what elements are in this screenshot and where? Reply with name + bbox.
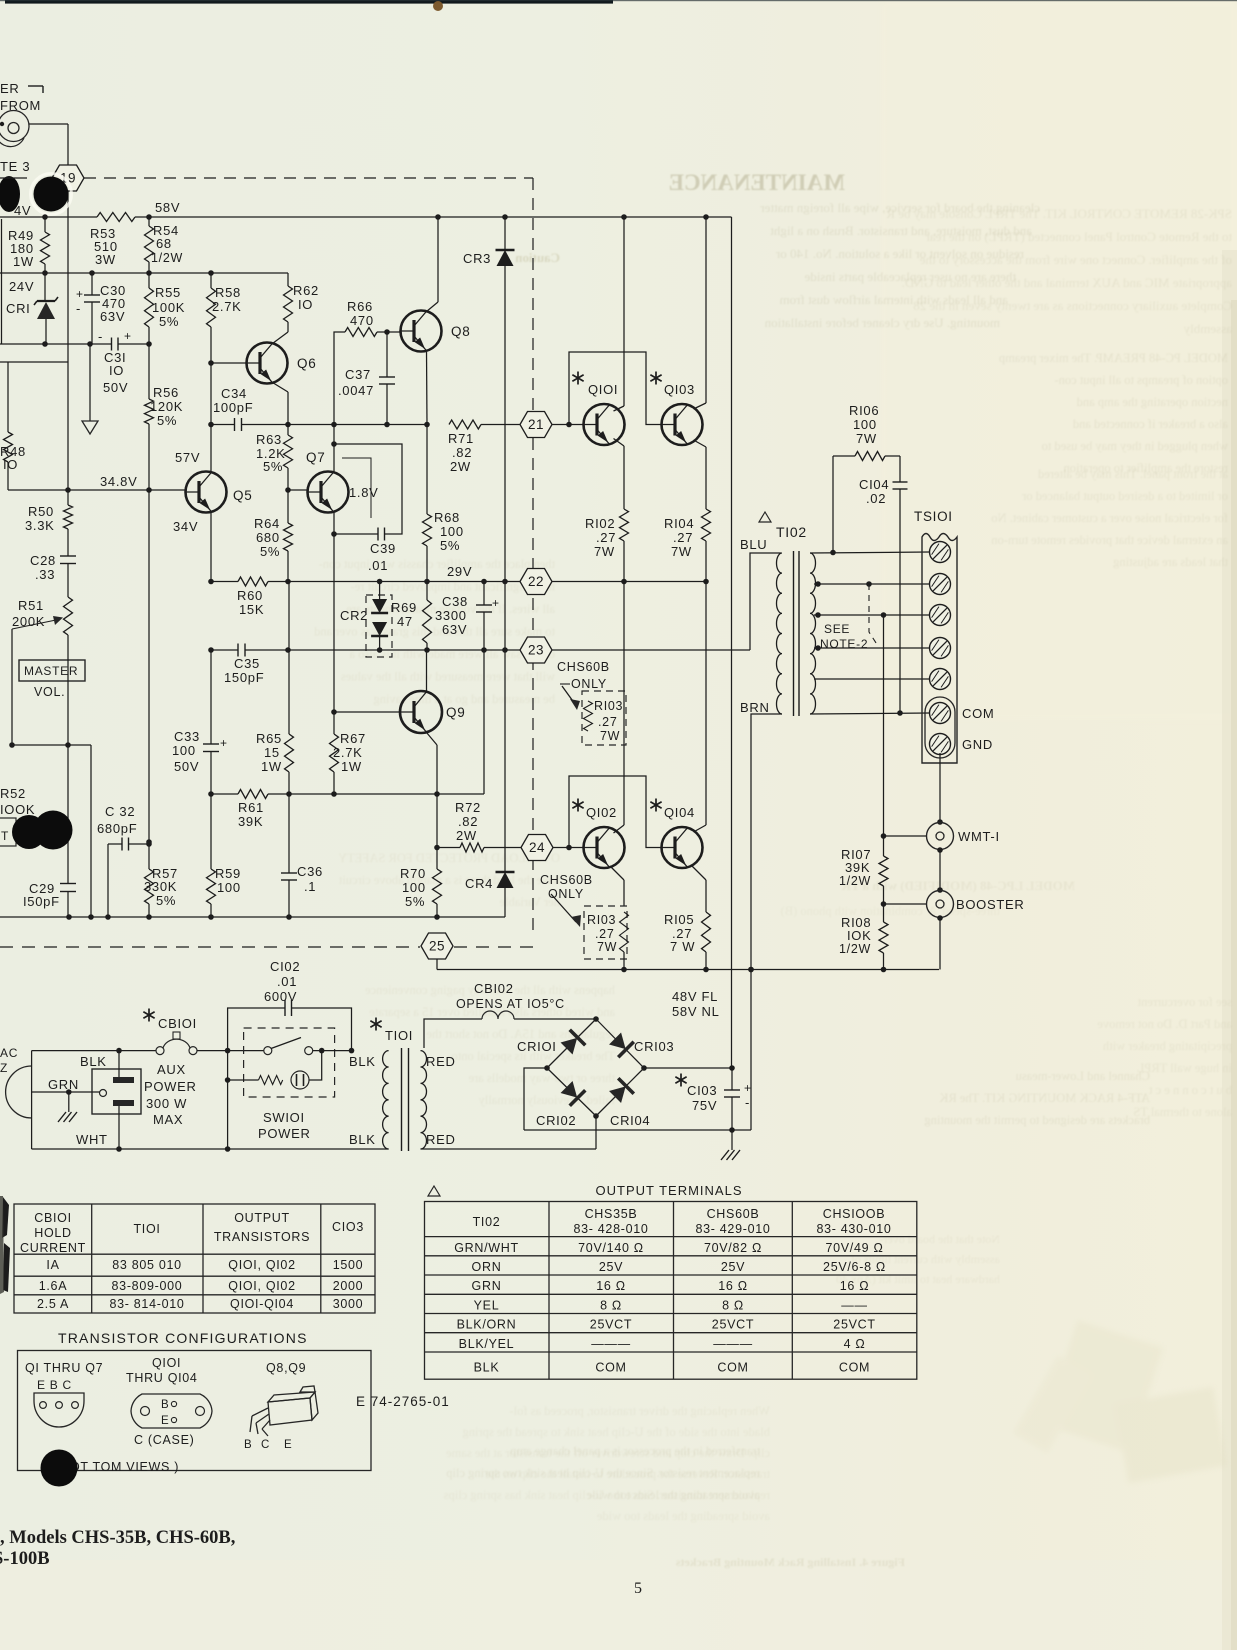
resistor R57 [145,869,154,904]
input jack from mixer [0,111,29,142]
svg-text:IA: IA [46,1258,59,1272]
switch SW101 [264,1047,272,1055]
bridge bottom corner to T101 [595,1116,597,1149]
svg-text:B: B [244,1439,252,1451]
svg-text:3300: 3300 [435,608,467,623]
svg-text:75V: 75V [692,1098,717,1113]
svg-text:Note that the board over-: Note that the board over- [880,1232,1000,1246]
svg-text:QI04: QI04 [664,805,695,820]
Q102 collector column from y=581 [623,582,625,826]
svg-text:R67: R67 [340,731,366,746]
svg-text:C 32: C 32 [105,804,135,819]
Q103 collector column from bus [705,217,707,403]
svg-text:CHS60B: CHS60B [540,873,593,887]
svg-text:39K: 39K [238,814,263,829]
transistor Q104 [662,827,703,868]
svg-text:CR3: CR3 [463,251,491,266]
Q6 emitter wire [273,383,289,393]
svg-text:7W: 7W [671,544,692,559]
resistor R70 [436,848,438,870]
svg-text:22: 22 [528,574,544,589]
svg-text:1W: 1W [13,254,34,269]
svg-text:Caution: Caution [514,250,560,265]
svg-text:100: 100 [217,880,241,895]
svg-text:CR2: CR2 [340,608,368,623]
svg-text:that leads are adjusting: that leads are adjusting [1112,555,1228,569]
Q7 emitter column [333,512,335,712]
svg-text:2.7K: 2.7K [212,299,242,314]
svg-text:QIOI, QI02: QIOI, QI02 [228,1279,295,1293]
table CB101 hold current [14,1204,375,1313]
svg-text:RI04: RI04 [664,516,694,531]
stadium around COM GND [925,697,955,758]
Q8 collector to 58V bus [437,217,439,302]
resistor R107 [879,856,888,886]
svg-text:.27: .27 [598,715,617,729]
TO-3 package bottom view [131,1394,212,1428]
svg-text:58V: 58V [155,200,180,215]
wire y=794 [211,793,238,795]
capacitor C36 [288,794,290,873]
svg-text:R62: R62 [293,283,319,298]
svg-text:RI02: RI02 [585,516,615,531]
svg-text:C39: C39 [370,541,396,556]
transformer T102 labels [759,512,771,522]
svg-text:Q8: Q8 [451,324,470,339]
ground at GRN [68,1092,70,1112]
resistor R54 [148,217,150,226]
transistor Q103 [662,404,703,445]
svg-text:of the amplifier. Connect one: of the amplifier. Connect one wire from … [920,252,1232,267]
svg-text:CR4: CR4 [465,876,493,891]
svg-text:R50: R50 [28,504,54,519]
svg-text:Q8,Q9: Q8,Q9 [266,1361,306,1375]
svg-text:1/2W: 1/2W [151,251,183,265]
GND wire down to WMT1 [939,753,941,822]
wire hex24 drive line y=847.5 [437,847,460,849]
svg-text:680pF: 680pF [97,821,137,836]
svg-text:50V: 50V [174,759,199,774]
resistor R64 [287,490,289,523]
svg-text:C33: C33 [174,729,200,744]
svg-text:C: C [261,1439,270,1451]
svg-text:25VCT: 25VCT [712,1318,754,1332]
svg-text:.82: .82 [458,814,478,829]
wire booster to divider [884,903,927,905]
svg-text:for electrical noise over a cu: for electrical noise over a customer cab… [991,511,1228,525]
svg-text:R69: R69 [391,600,417,615]
capacitor C104 [899,456,901,482]
svg-text:TI02: TI02 [776,524,807,540]
node 19 hexagon [52,165,84,191]
capacitor C30 [91,273,93,295]
transistor Q8 [401,311,442,352]
svg-text:83 805 010: 83 805 010 [112,1258,182,1272]
TS101 screw terminals [930,542,951,563]
ground rail y=917 [0,916,505,918]
wire y=650 (hex23 line) [211,649,238,651]
svg-text:, Models CHS-35B, CHS-60B,: , Models CHS-35B, CHS-60B, [0,1528,235,1548]
svg-text:ORN: ORN [472,1260,502,1274]
svg-text:+: + [76,287,84,301]
resistor R62 [287,273,289,286]
svg-text:CRI02: CRI02 [536,1113,576,1128]
svg-text:replacement transistor. Since: replacement transistor. Since the U-clip… [444,1488,770,1502]
neon lamp branch [228,1079,259,1081]
left page-edge wire [1,219,3,344]
wire hex19 down to Q5 base line [67,191,69,490]
svg-text:TIOI: TIOI [133,1222,160,1236]
svg-text:100: 100 [402,880,426,895]
node 22 hexagon [520,569,552,595]
svg-text:IOOK: IOOK [0,802,35,817]
resistor R53 [97,213,135,222]
svg-text:7W: 7W [856,431,877,446]
svg-text:blade into the side of the U-c: blade into the side of the U-clip heat s… [462,1425,770,1439]
wire y=362 to left edge [0,361,68,363]
svg-text:HOLD: HOLD [34,1226,72,1240]
svg-text:C35: C35 [234,656,260,671]
svg-text:or limited to a desired output: or limited to a desired output balanced … [1021,489,1228,503]
svg-text:CBIOI: CBIOI [34,1211,72,1225]
T102 primary coil [777,553,783,714]
black ink blob over R52 area [12,815,46,849]
node 21 hexagon [520,412,552,438]
svg-text:BLK: BLK [80,1054,107,1069]
capacitor C31 [111,338,113,351]
svg-text:2.7K: 2.7K [333,745,363,760]
svg-text:R61: R61 [238,800,264,815]
svg-text:Z: Z [0,1061,8,1075]
svg-text:AC: AC [0,1046,18,1060]
wire tap3 down to WMT divider [883,615,885,856]
svg-text:SWIOI: SWIOI [263,1110,305,1125]
transistor Q5 [210,425,212,472]
svg-text:GRN: GRN [472,1279,502,1293]
wire x=484 from 650 down to 794 [483,650,485,794]
svg-text:58V NL: 58V NL [672,1004,720,1019]
svg-text:5%: 5% [159,314,179,329]
svg-text:.0047: .0047 [338,383,374,398]
svg-text:QIOI-QI04: QIOI-QI04 [230,1297,294,1311]
svg-text:R68: R68 [434,510,460,525]
svg-text:R58: R58 [215,285,241,300]
svg-text:RI05: RI05 [664,912,694,927]
svg-text:WHT: WHT [76,1132,108,1147]
resistor R66 [334,332,345,425]
svg-text:IOK: IOK [847,928,872,943]
svg-text:COM: COM [717,1361,748,1375]
svg-text:1.8V: 1.8V [349,485,379,500]
svg-text:nection operating the amp and: nection operating the amp and [1076,395,1228,409]
potentiometer R51 [64,597,73,635]
svg-text:GND: GND [962,737,993,752]
resistor R68 [426,425,428,515]
svg-text:QI03: QI03 [664,382,695,397]
svg-text:CRI04: CRI04 [610,1113,650,1128]
svg-text:Q9: Q9 [446,705,465,720]
svg-text:100: 100 [440,524,464,539]
svg-text:83-809-000: 83-809-000 [112,1279,183,1293]
svg-text:R63: R63 [256,432,282,447]
svg-text:THRU QI04: THRU QI04 [126,1371,198,1385]
svg-text:mounting. Use dry cleaner befo: mounting. Use dry cleaner before install… [764,315,1000,330]
svg-text:CI04: CI04 [859,477,889,492]
svg-text:21: 21 [528,417,544,432]
svg-text:1W: 1W [261,759,282,774]
svg-text:C37: C37 [345,367,371,382]
pen quill scan artifact [2,1197,9,1238]
resistor R67 [333,712,335,734]
svg-text:CHS60B: CHS60B [557,660,610,674]
svg-text:ONLY: ONLY [571,677,607,691]
svg-text:Complete auxiliary connections: Complete auxiliary connections as are tw… [913,298,1232,313]
capacitor C103 [731,1068,733,1090]
svg-text:+: + [744,1081,752,1095]
C39 feedback loop around Q7 [334,444,402,534]
svg-text:Q7: Q7 [306,450,325,465]
svg-text:three or two-way modells are: three or two-way modells are [468,1071,615,1085]
svg-text:5%: 5% [260,544,280,559]
column x=211 from y273 [210,273,212,288]
svg-text:ER: ER [0,81,19,96]
svg-text:BLK: BLK [349,1054,376,1069]
svg-text:COM: COM [595,1361,626,1375]
resistor R71 and wire to hex21 [449,420,481,429]
svg-text:16 Ω: 16 Ω [840,1279,870,1293]
svg-text:R71: R71 [448,431,474,446]
base hop loop Q102 to Q104 [569,776,662,848]
svg-text:MODEL LPC-48 (MODIFIED) with a: MODEL LPC-48 (MODIFIED) with a TR [841,878,1075,893]
brown speck top center [433,1,443,11]
dashed boundary bottom y=947 [0,946,420,948]
svg-text:BLK: BLK [349,1132,376,1147]
svg-text:TI02: TI02 [473,1215,501,1229]
svg-text:will that were measured with a: will that were measured with all the val… [341,670,555,684]
junction Q7 base [285,487,291,493]
svg-text:CIO3: CIO3 [332,1220,364,1234]
svg-text:39K: 39K [845,860,870,875]
Q104 emitter down to R105 [692,866,706,880]
svg-text:34.8V: 34.8V [100,474,137,489]
svg-text:assembly: assembly [1183,321,1232,336]
bus corner down right side x=731.5 [731,217,733,1068]
svg-text:68: 68 [156,236,172,251]
wire R56 down to R57 [148,490,150,869]
svg-text:2.5 A: 2.5 A [37,1297,69,1311]
svg-text:Q6: Q6 [297,356,316,371]
svg-text:OT TOM VIEWS ): OT TOM VIEWS ) [70,1460,179,1474]
bridge left corner to ground rail [524,1068,547,1130]
svg-text:MAINTENANCE: MAINTENANCE [669,170,845,195]
svg-text:AUX: AUX [157,1062,186,1077]
black ink blob left [0,176,20,212]
svg-text:8 Ω: 8 Ω [600,1298,622,1312]
resistor R50 [67,490,69,505]
svg-text:25V: 25V [599,1260,623,1274]
transformer T101 [375,1018,377,1031]
svg-text:34V: 34V [173,519,198,534]
hex25 to output rail [436,959,438,970]
svg-text:24: 24 [529,840,545,855]
capacitor C38 [483,582,485,606]
svg-text:appropriate MIC and AUX termin: appropriate MIC and AUX terminal and the… [902,275,1232,290]
resistor R55 [148,273,150,288]
svg-text:CRI: CRI [6,301,31,316]
transistor Q9 [400,691,442,733]
svg-text:TSIOI: TSIOI [914,509,953,524]
svg-text:clip. Draw the chip and screwd: clip. Draw the chip and screwdriver off … [446,1446,770,1460]
AC top wire [32,1050,156,1052]
transistor configurations box [18,1351,372,1471]
svg-text:QI THRU Q7: QI THRU Q7 [25,1361,103,1375]
resistor R65 [288,582,290,651]
svg-text:RI06: RI06 [849,403,879,418]
svg-text:R70: R70 [400,866,426,881]
svg-text:83- 428-010: 83- 428-010 [573,1222,648,1236]
output terminals table heading [428,1186,440,1196]
capacitor C33 [210,650,212,744]
svg-text:47: 47 [397,614,413,629]
svg-text:-: - [76,301,81,316]
svg-text:24V: 24V [9,279,34,294]
svg-text:R55: R55 [155,285,181,300]
svg-text:CHS35B: CHS35B [585,1207,638,1221]
svg-text:3.3K: 3.3K [25,518,55,533]
svg-text:.1: .1 [304,879,316,894]
svg-text:4 Ω: 4 Ω [844,1337,866,1351]
TO-92 package bottom view [34,1393,84,1427]
resistor R63 [287,425,289,436]
transistor Q6 [247,343,288,384]
svg-text:E B C: E B C [37,1378,72,1392]
svg-text:2W: 2W [456,828,477,843]
node 25 hexagon [421,933,453,959]
svg-text:E: E [284,1439,292,1451]
svg-text:GRN: GRN [48,1077,79,1092]
jack WMT-1 [937,819,943,825]
svg-text:R65: R65 [256,731,282,746]
BLU wire corner to T102 [750,553,781,650]
svg-text:option of preamps to all input: option of preamps to all input con- [1054,373,1228,387]
svg-text:.27: .27 [673,530,693,545]
svg-text:see for overcurrent: see for overcurrent [1137,995,1232,1009]
circuit breaker CB101 [148,1009,150,1022]
svg-text:.27: .27 [596,530,616,545]
svg-text:MAX: MAX [153,1112,183,1127]
svg-text:5%: 5% [157,413,177,428]
svg-text:have the load there is a margi: have the load there is a margin above ci… [338,873,560,887]
svg-text:when plugged in they may be us: when plugged in they may be used to [1042,439,1228,453]
svg-text:16 Ω: 16 Ω [596,1279,626,1293]
svg-text:CHS60B: CHS60B [707,1207,760,1221]
svg-text:b u t c o n n e c t: b u t c o n n e c t [1149,1083,1232,1097]
svg-text:then place the amplifier chass: then place the amplifier chassis with in… [319,557,555,571]
svg-text:.82: .82 [452,445,472,460]
svg-text:BOOSTER: BOOSTER [956,897,1024,912]
Q104 collector column from y=581 [705,582,707,826]
svg-text:and Part D. Do not remove: and Part D. Do not remove [1097,1017,1232,1031]
dashed boundary vertical x=533 [532,178,534,934]
wiper wire down [12,629,91,745]
base hop loop Q101 to Q103 [569,352,662,425]
resistor R104 [702,509,711,541]
svg-text:5: 5 [634,1580,642,1597]
svg-text:BLK/YEL: BLK/YEL [459,1337,515,1351]
output wire y=581.5 (29V) [211,581,238,583]
svg-text:also a breaker if connected an: also a breaker if connected and [1072,417,1228,431]
svg-text:CRI03: CRI03 [634,1039,674,1054]
resistor R60 [238,577,268,586]
svg-text:QIOI: QIOI [588,382,618,397]
MASTER VOL box [19,660,85,681]
svg-text:C38: C38 [442,594,468,609]
T102 core [793,551,795,716]
svg-text:100K: 100K [152,300,185,315]
Q9 base wire [334,711,400,713]
svg-text:8 Ω: 8 Ω [722,1298,744,1312]
svg-text:POWER: POWER [258,1126,311,1141]
svg-text:R64: R64 [254,516,280,531]
svg-text:R59: R59 [215,866,241,881]
ground rail y=1130 [524,1129,751,1131]
TO-220 package 3d view [250,1386,318,1436]
svg-text:330K: 330K [144,879,177,894]
svg-text:7W: 7W [600,729,620,743]
resistor R49 [44,217,46,232]
output terminals table [425,1202,917,1380]
Q103 emitter to R104 [694,440,707,447]
svg-text:7W: 7W [597,940,617,954]
svg-text:63V: 63V [100,309,125,324]
capacitor C28 [67,529,69,556]
svg-text:57V: 57V [175,450,200,465]
svg-text:2W: 2W [450,459,471,474]
resistor R69 [426,582,428,601]
svg-text:C36: C36 [297,864,323,879]
svg-text:GRN/WHT: GRN/WHT [454,1241,519,1255]
svg-text:RI03: RI03 [594,699,623,713]
SW101 dashed box [244,1028,335,1097]
svg-text:R60: R60 [237,588,263,603]
Q101 emitter to R102 [614,439,625,447]
Q5 emitter down to hex22 line [210,513,212,582]
node 24 hexagon [521,835,553,861]
svg-text:MASTER: MASTER [24,664,78,678]
capacitor C29 [67,745,69,884]
svg-text:to the Remote Control Panel co: to the Remote Control Panel connected (T… [925,229,1232,244]
svg-text:COM: COM [962,706,994,721]
svg-text:Q5: Q5 [233,488,252,503]
svg-text:50V: 50V [103,380,128,395]
svg-text:15K: 15K [239,602,264,617]
Q9 collector up to y650 [426,650,428,692]
svg-text:120K: 120K [150,399,183,414]
junction Q6 base [208,360,214,366]
capacitor C35 [237,644,239,657]
svg-text:QI02: QI02 [586,805,617,820]
svg-text:300 W: 300 W [146,1096,187,1111]
svg-text:brackets are designed to permi: brackets are designed to permit the moun… [924,1113,1150,1127]
svg-text:R72: R72 [455,800,481,815]
svg-text:25: 25 [429,939,445,954]
svg-text:C34: C34 [221,386,247,401]
svg-text:SEE: SEE [824,622,850,636]
svg-text:FROM: FROM [0,98,41,113]
svg-text:83- 429-010: 83- 429-010 [695,1222,770,1236]
svg-text:TRANSISTORS: TRANSISTORS [214,1230,310,1244]
junction dots on 58V bus [42,214,48,220]
